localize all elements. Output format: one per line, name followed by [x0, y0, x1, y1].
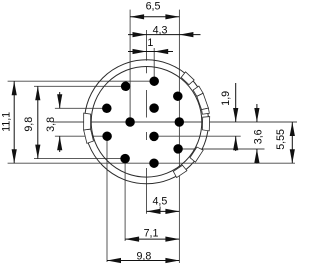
svg-text:9,8: 9,8: [23, 117, 35, 132]
svg-text:4,3: 4,3: [153, 24, 168, 36]
svg-text:3,8: 3,8: [45, 117, 57, 132]
svg-text:11,1: 11,1: [1, 112, 13, 132]
svg-text:7,1: 7,1: [144, 228, 159, 240]
svg-text:9,8: 9,8: [136, 250, 151, 262]
svg-text:5,55: 5,55: [275, 129, 287, 150]
svg-text:3,6: 3,6: [253, 129, 265, 144]
svg-text:1,9: 1,9: [220, 91, 232, 106]
svg-text:4,5: 4,5: [152, 196, 167, 208]
svg-text:1: 1: [147, 37, 153, 49]
svg-text:6,5: 6,5: [146, 1, 161, 13]
